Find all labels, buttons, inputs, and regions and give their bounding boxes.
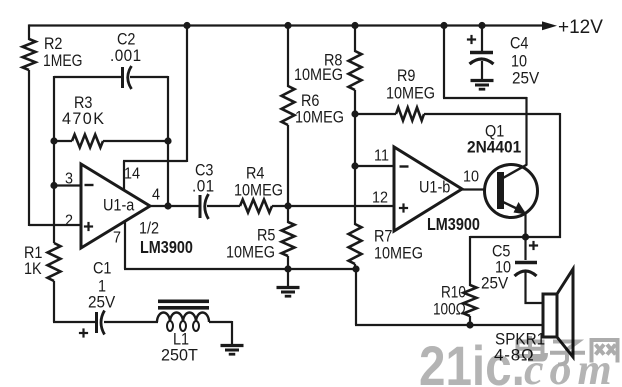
svg-text:470K: 470K [62, 109, 105, 128]
C5 value 25V [481, 274, 508, 293]
ground at R5 [287, 269, 289, 287]
R5 value 10MEG [226, 243, 275, 261]
capacitor C2 [121, 67, 124, 88]
wire R3 right to node [103, 140, 168, 142]
wire R2 bottom down left side [28, 70, 30, 226]
svg-text:1MEG: 1MEG [43, 52, 82, 71]
R6 label [301, 92, 320, 110]
+12V arrowhead [542, 21, 557, 30]
svg-text:R10: R10 [441, 283, 466, 302]
C5 value 10 [495, 258, 511, 276]
wire R3 node down to output node [167, 141, 169, 206]
U1-a label [103, 196, 135, 214]
svg-text:7: 7 [113, 229, 121, 247]
pin 4 label [152, 186, 161, 204]
svg-text:10MEG: 10MEG [295, 108, 344, 126]
svg-text:10MEG: 10MEG [234, 181, 283, 199]
svg-text:1/2: 1/2 [139, 219, 159, 237]
R8 value 10MEG [294, 66, 343, 84]
pin 3 label [65, 170, 73, 188]
C4 value 10 [511, 52, 527, 70]
watermark com script [524, 345, 618, 387]
op-amp U1-b [394, 147, 462, 231]
R8 label [324, 51, 343, 69]
wire C3 to R4 [207, 205, 240, 207]
R2 value 1MEG [43, 52, 82, 71]
C5 plus sign [529, 244, 538, 246]
L1 value 250T [161, 345, 198, 364]
capacitor C3 [199, 195, 202, 218]
R1 value 1K [24, 260, 42, 278]
R1 label [24, 244, 42, 262]
svg-text:+12V: +12V [558, 17, 603, 38]
C1 plus sign [79, 332, 88, 334]
U1-a 1/2 label [139, 219, 159, 237]
C4 label [510, 34, 529, 52]
inductor L1 core bars [158, 300, 209, 304]
wire pin 14 bias [123, 161, 125, 191]
wire pin 7 to ground bus [124, 220, 126, 269]
svg-text:R4: R4 [246, 164, 265, 182]
svg-text:10MEG: 10MEG [374, 244, 423, 262]
U1-b LM3900 label [427, 215, 480, 235]
C1 value 1 [98, 277, 106, 295]
wire R9 right to feedback riser [424, 113, 560, 115]
wire emitter node to R10 riser [470, 236, 526, 238]
U1-a plus input symbol [84, 225, 93, 227]
R3 value 470K [62, 109, 105, 128]
pin 10 label [463, 168, 479, 186]
L1 label [173, 330, 189, 348]
C5 label [492, 242, 511, 260]
wire node A vertical (C2/R3/pin3) [53, 76, 55, 243]
wire left vertical from rail to R2 [28, 24, 30, 40]
resistor R2 [23, 39, 36, 70]
svg-text:LM3900: LM3900 [140, 238, 193, 258]
C3 value .01 [192, 177, 215, 196]
SPKR1 value 4-8ohm [494, 345, 534, 364]
C1 label [93, 259, 111, 277]
wire +12V branch to Q1 collector [443, 24, 445, 98]
wire R9 node down to pin 11 node [354, 114, 356, 167]
R9 value 10MEG [386, 84, 435, 102]
resistor R10 [464, 285, 477, 316]
svg-text:250T: 250T [161, 345, 198, 364]
wire R8 column top [354, 24, 356, 52]
R6 value 10MEG [295, 108, 344, 126]
svg-text:11: 11 [374, 147, 389, 165]
C2 value .001 [110, 46, 142, 65]
Q1 label [485, 122, 504, 140]
resistor R9 [354, 113, 396, 115]
wire C2 top branch left [54, 76, 121, 78]
R10 label [441, 283, 466, 302]
transistor Q1 [485, 165, 538, 218]
svg-text:U1-a: U1-a [103, 196, 135, 214]
svg-text:.01: .01 [192, 177, 215, 196]
C2 label [117, 30, 135, 48]
svg-text:R2: R2 [44, 35, 62, 53]
watermark chinese char wang [592, 340, 618, 363]
wire R8 bottom to R9 node [354, 90, 356, 115]
bottom rail wire to speaker [355, 324, 544, 326]
R2 label [44, 35, 62, 53]
capacitor C1 [95, 312, 98, 333]
feedback riser wire down right side [559, 113, 561, 238]
svg-text:1K: 1K [24, 260, 42, 278]
pin 12 label [372, 189, 388, 207]
U1-a LM3900 label [140, 238, 193, 258]
U1-b minus input symbol [400, 165, 409, 167]
U1-b label [419, 178, 451, 196]
wire pin 3 input [54, 184, 82, 186]
svg-text:14: 14 [124, 165, 141, 183]
R3 label [74, 94, 93, 112]
R9 label [397, 67, 416, 85]
svg-text:U1-b: U1-b [419, 178, 451, 196]
wire Q1 emitter down [524, 212, 526, 238]
resistor R5 [287, 205, 289, 223]
C3 label [195, 161, 214, 179]
svg-text:21ic.: 21ic. [419, 335, 525, 387]
pin 14 label [124, 165, 141, 183]
U1-b plus input symbol [399, 207, 408, 209]
svg-text:10MEG: 10MEG [226, 243, 275, 261]
+12V supply rail [29, 24, 543, 26]
U1-a minus input symbol [85, 184, 94, 186]
wire pin11 node down through bus to R7 [354, 166, 356, 225]
svg-text:25V: 25V [512, 69, 539, 88]
speaker SPKR1 driver box [543, 294, 557, 337]
svg-text:12: 12 [372, 189, 388, 207]
svg-text:4: 4 [152, 186, 161, 204]
wire R3 row [54, 140, 72, 142]
resistor R3 [72, 135, 103, 148]
R10 value 100ohm [433, 300, 466, 319]
resistor R8 [349, 51, 362, 90]
watermark chinese char dian [518, 336, 547, 360]
ground at C4 [481, 61, 483, 80]
watermark 21ic [419, 335, 618, 387]
pin 7 label [113, 229, 121, 247]
resistor R7 [349, 224, 362, 264]
svg-text:LM3900: LM3900 [427, 215, 480, 235]
svg-text:C1: C1 [93, 259, 111, 277]
SPKR1 label [495, 330, 545, 349]
svg-text:2N4401: 2N4401 [467, 138, 521, 157]
wire R10 bottom to rail [469, 316, 471, 326]
R7 label [374, 227, 392, 245]
+12V label [558, 17, 603, 38]
svg-text:C4: C4 [510, 34, 529, 52]
wire L1 right to ground [209, 321, 232, 323]
wire C1 to L1 [104, 321, 158, 323]
wire riser to emitter node [524, 236, 561, 238]
capacitor C4 [481, 24, 483, 51]
wire R6 bottom to bus node [287, 125, 289, 207]
pin 11 label [374, 147, 389, 165]
wire R10 riser down [469, 236, 471, 286]
svg-text:10MEG: 10MEG [386, 84, 435, 102]
wire ground bus corner down to bottom rail [355, 268, 357, 325]
svg-text:R7: R7 [374, 227, 392, 245]
R7 value 10MEG [374, 244, 423, 262]
wire R7 bottom to ground bus [354, 264, 356, 270]
speaker SPKR1 cone [557, 269, 573, 357]
C4 value 25V [512, 69, 539, 88]
R4 label [246, 164, 265, 182]
wire C2 right to output column [130, 76, 168, 78]
wire pin 11 input [355, 165, 395, 167]
resistor R1 [48, 243, 61, 281]
wire C5 bottom to speaker top terminal [524, 272, 526, 304]
resistor R4 [240, 200, 272, 213]
C4 plus sign [467, 38, 476, 40]
pin 2 label [65, 212, 73, 230]
svg-text:R9: R9 [397, 67, 416, 85]
svg-text:25V: 25V [481, 274, 508, 293]
wire U1-a output bus [149, 205, 199, 207]
R5 label [257, 226, 276, 244]
svg-text:100Ω: 100Ω [433, 300, 466, 319]
C1 value 25V [88, 293, 115, 312]
wire to pin 2 of U1-a [29, 224, 82, 226]
R4 value 10MEG [234, 181, 283, 199]
capacitor C5 [524, 236, 526, 260]
resistor R6 [282, 86, 295, 125]
svg-text:2: 2 [65, 212, 73, 230]
op-amp U1-a [81, 164, 150, 248]
wire R1 bottom to C1 [53, 281, 55, 322]
wire R4 to pin 12 of U1-b [272, 205, 395, 207]
Q1 type 2N4401 [467, 138, 521, 157]
svg-text:10MEG: 10MEG [294, 66, 343, 84]
svg-text:3: 3 [65, 170, 73, 188]
ground at L1 [221, 344, 244, 347]
watermark chinese char zi [550, 342, 585, 365]
junction dots [183, 22, 190, 29]
svg-text:10: 10 [463, 168, 479, 186]
wire U1-b output to Q1 base [461, 188, 498, 190]
svg-text:.001: .001 [110, 46, 142, 65]
inductor L1 winding [157, 313, 209, 323]
wire R6 column top [287, 24, 289, 87]
svg-text:R5: R5 [257, 226, 276, 244]
svg-text:25V: 25V [88, 293, 115, 312]
